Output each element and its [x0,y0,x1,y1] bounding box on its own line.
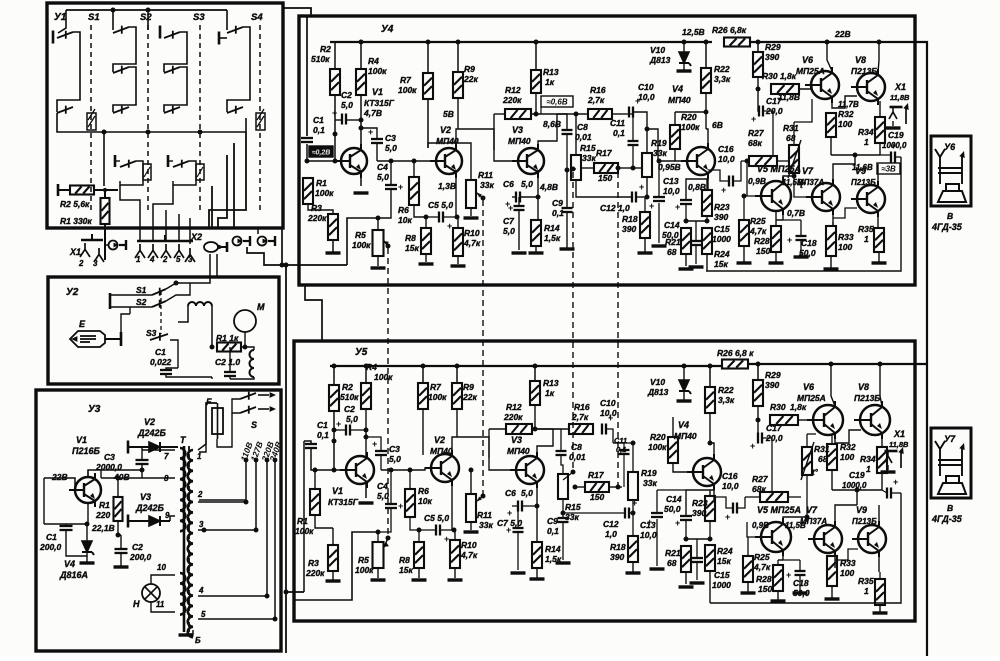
U4 V4 wires [706,129,708,146]
U5 R32 wires [831,434,833,444]
svg-text:R2: R2 [342,382,353,392]
connector X1 pin2 fork [80,243,90,257]
svg-text:R17: R17 [588,470,605,480]
svg-text:МП40: МП40 [507,446,530,456]
U4 V7 V9 wires [833,164,855,183]
U4 R15 wiper dot [571,167,576,172]
svg-text:R2: R2 [320,44,331,54]
U5 R28 wires [777,560,779,565]
U4 R32 wires [830,99,832,113]
U5 C7 wires [517,532,519,570]
U1 terminal bar S3 row1 [159,26,162,39]
U5 top rail wire [330,365,723,367]
U4 R12 wires [494,113,505,115]
wire U1 corner down [281,228,283,265]
svg-text:С3: С3 [385,133,396,143]
svg-text:С3: С3 [104,452,115,462]
resistor R20 U4 [670,125,680,149]
svg-text:С2: С2 [344,404,355,414]
svg-text:R35: R35 [858,224,874,234]
svg-text:V3: V3 [512,125,523,135]
svg-text:5: 5 [176,255,181,264]
svg-text:1000: 1000 [712,234,731,244]
U4 C5 wires [426,216,439,218]
U4 V2 emitter wire [455,170,457,217]
svg-text:100к: 100к [315,188,334,198]
svg-text:V5 МП25А: V5 МП25А [757,164,801,174]
U4 C6 wires [512,196,516,198]
U3 lamp H [142,584,160,602]
resistor R9 U4 [453,72,463,98]
resistor R2 U4 [330,69,340,95]
U5 R8 wires [418,530,420,542]
svg-text:4ГД-35: 4ГД-35 [931,514,963,524]
U1 S1 dashed link [90,25,92,210]
connector X1 bar [81,239,103,242]
resistor R16 U5 [569,424,593,434]
svg-text:С16: С16 [722,471,738,481]
U1 crossbus wire [57,113,246,132]
svg-text:V4: V4 [678,420,689,430]
diode V10 U5 zener [679,380,691,394]
U2 S2 contact [152,300,166,308]
svg-text:КТ315Г: КТ315Г [328,497,359,507]
U1 terminal bar row4 S2 [114,155,117,167]
U2 wire S3 to C1 [170,340,178,368]
U4 R19 wires [646,129,648,153]
svg-text:S2: S2 [136,297,147,307]
svg-text:10к: 10к [418,496,432,506]
svg-text:15к: 15к [714,259,728,269]
svg-text:510к: 510к [340,392,359,402]
svg-text:4,7к: 4,7к [753,562,771,572]
U4 C10 wires [633,112,647,129]
svg-text:У1: У1 [54,12,67,23]
svg-text:С11: С11 [610,118,625,128]
svg-text:0,7В: 0,7В [787,208,805,218]
resistor R4 U4 [356,69,366,95]
U3 selector dots [244,458,249,463]
resistor R18 U4 [640,212,650,238]
U4 return bus to R5 node [347,218,378,265]
svg-text:R1 330к: R1 330к [60,216,92,226]
capacitor C2 U5 [346,425,350,436]
svg-text:15к: 15к [405,243,419,253]
resistor R26 U4 [724,38,750,47]
svg-text:П213Б: П213Б [854,393,880,403]
svg-text:200,0: 200,0 [39,542,62,552]
svg-text:V3: V3 [140,492,151,502]
capacitor C1 U4 [301,138,313,142]
U3 C1 cap [60,526,73,530]
svg-text:Е: Е [79,319,86,329]
U1 hatched detent row4 S3 [196,164,204,180]
wire U5 input branch [286,591,304,593]
connector X2 pin5 fork [174,244,184,258]
resistor R1 U1 [101,198,110,224]
svg-text:V1: V1 [372,87,383,97]
capacitor C18 U5 [795,571,806,575]
svg-text:С14: С14 [666,494,682,504]
U1 row2 return wires [113,67,136,112]
svg-text:R16: R16 [574,402,590,412]
svg-text:R9: R9 [463,382,474,392]
U4 C16 wires [708,170,729,181]
resistor R17 U4 [594,163,618,173]
U5 R27 wires [745,496,760,498]
svg-text:R35: R35 [858,576,874,586]
svg-text:У7: У7 [944,434,956,444]
U5 R30 wires [798,419,813,421]
U3 transistor V1 [69,473,101,507]
svg-text:4,7к: 4,7к [460,550,478,560]
U1 S1 contact row3 [57,106,73,114]
svg-text:+: + [675,518,680,528]
resistor R30 U5 [770,415,798,425]
U3 primary tap 3 wire [198,529,256,531]
U4 input node wires [306,144,308,161]
svg-text:С15: С15 [714,570,730,580]
U4 V3 base wire [494,150,518,161]
svg-text:+: + [336,419,341,429]
capacitor C13 U5 [651,513,663,517]
svg-text:С14: С14 [664,220,680,230]
svg-text:22к: 22к [462,392,477,402]
U4 R24 wires [706,254,708,271]
U1 row1 return wires [57,32,80,112]
svg-text:≈3В: ≈3В [881,165,896,174]
U5 R13 wires [533,364,538,369]
U5 C18 wires [799,560,801,571]
svg-text:33к: 33к [480,180,494,190]
svg-text:V10: V10 [650,377,665,387]
svg-text:R27: R27 [748,128,765,138]
svg-text:+: + [639,182,644,192]
svg-text:С6: С6 [505,488,516,498]
capacitor C10 U5 [602,424,606,435]
U4 R10 wires [457,217,458,228]
svg-text:22,1В: 22,1В [91,523,115,533]
svg-text:10,0: 10,0 [640,530,657,540]
svg-text:5,0: 5,0 [385,143,397,153]
U4 V10 wires [682,40,687,45]
capacitor C14 U5 [680,516,692,520]
capacitor C16 U4 [729,176,733,187]
svg-text:R15: R15 [565,502,581,512]
U5 input node wires [304,441,311,444]
svg-text:5,0: 5,0 [341,100,353,110]
svg-text:R24: R24 [717,546,733,556]
svg-text:0,022: 0,022 [150,357,172,367]
svg-text:220к: 220к [307,213,327,223]
svg-text:5,0: 5,0 [521,179,533,189]
U5 input wire [303,441,305,592]
U4 C17 cap [759,106,763,117]
svg-text:1,3В: 1,3В [438,181,456,191]
svg-text:R30: R30 [770,402,786,412]
resistor R21 U4 [681,228,691,254]
svg-text:С10: С10 [600,398,616,408]
svg-text:Д816А: Д816А [59,570,88,580]
svg-text:510к: 510к [311,54,330,64]
svg-text:R34: R34 [860,454,876,464]
svg-text:V2: V2 [144,417,155,427]
U4 C12 wires [576,196,632,197]
svg-text:М: М [257,302,265,312]
U5 R5 wires [378,508,391,532]
capacitor C14 U4 [680,200,692,204]
svg-text:0,95В: 0,95В [658,162,681,172]
U4 R1 bottom wire [308,204,333,214]
svg-text:Д242Б: Д242Б [135,503,165,513]
svg-text:1,8к: 1,8к [790,402,807,412]
U1 row4 wires [120,161,143,185]
svg-text:С1: С1 [313,115,324,125]
svg-text:2,7к: 2,7к [587,95,605,105]
U4 C18 wires [800,220,802,236]
svg-text:С9: С9 [552,198,563,208]
svg-text:R5: R5 [358,555,369,565]
U1 S3 contact row2 [164,66,180,74]
svg-text:R6: R6 [418,486,429,496]
U1 top feed wires [66,9,227,11]
svg-text:S1: S1 [136,285,147,295]
svg-text:5,0: 5,0 [389,454,401,464]
resistor R23 U4 [702,190,712,216]
U5 R3 wires [332,528,334,545]
svg-text:5,0: 5,0 [377,172,389,182]
resistor R7 U5 [418,383,428,409]
svg-text:С12 1,0: С12 1,0 [600,203,630,213]
U5 R19 wires [632,443,634,472]
svg-text:R29: R29 [765,370,781,380]
svg-text:+: + [893,477,898,487]
transistor V1 U5 [340,452,374,488]
resistor R25 U5 [743,556,753,582]
resistor R2 U5 [329,385,339,411]
U5 C6 wires [512,505,518,507]
U4 R14 wires [535,246,537,252]
U3 winding primary right [188,450,193,637]
svg-text:S4: S4 [251,12,263,23]
transistor V5 U5 [755,518,791,556]
svg-text:R10: R10 [464,228,480,238]
capacitor C15 U5 [691,558,703,562]
U5 node wires [685,520,687,539]
U1 terminal bar top-left [52,31,55,44]
svg-text:0,1: 0,1 [552,208,564,218]
svg-text:22к: 22к [463,74,478,84]
svg-text:2: 2 [78,259,84,268]
resistor R8 U5 [414,542,424,568]
svg-text:1,5к: 1,5к [544,233,561,243]
U1 terminal bar row4 S3 [167,155,170,167]
transistor V5 U4 [755,177,791,215]
U4 input wire from top [306,17,308,136]
svg-text:4: 4 [198,586,204,595]
transistor V1 U4 [335,144,367,178]
svg-text:С16: С16 [718,144,734,154]
U1 S3 contact row3 [164,106,180,114]
svg-text:1: 1 [136,255,141,264]
U5 V5 wires [747,522,762,537]
U3 winding 7-8-9 left [180,448,185,531]
wire connector ellipse to U2 verticals [209,254,211,277]
resistor R28 U4 [771,226,781,252]
U5 C9 wires [562,513,564,518]
capacitor C8 U5 [556,451,567,455]
svg-text:У3: У3 [88,404,101,415]
resistor R10 U5 [450,540,460,568]
transistor V9 U4 [851,181,885,217]
svg-text:С12: С12 [603,519,619,529]
capacitor C6 U5 [518,501,522,512]
svg-text:С19: С19 [888,130,904,140]
svg-text:+: + [649,201,654,211]
svg-text:10,0: 10,0 [722,481,739,491]
resistor R5 U5 potentiometer [373,542,384,568]
U5 R9 wires [455,364,460,369]
svg-text:4ГД-35: 4ГД-35 [931,222,963,232]
svg-text:КТ315Г: КТ315Г [364,98,395,108]
U5 C13 wires [656,490,658,513]
svg-text:11,8В: 11,8В [889,440,909,449]
svg-text:100: 100 [838,242,852,252]
U3 tap B wire and ground [186,630,193,634]
svg-text:+: + [725,512,730,522]
svg-text:R11: R11 [478,170,493,180]
U5 C11 wires [613,443,624,450]
svg-text:6В: 6В [712,120,723,130]
svg-text:С8: С8 [571,442,582,452]
svg-text:F: F [206,397,212,407]
transistor V3 U4 [512,144,544,178]
wire connector D stub up [257,228,259,234]
U4 measure box 0,2V [309,146,333,157]
svg-text:С13: С13 [640,520,656,530]
resistor R22 U4 [701,68,711,93]
svg-text:15к: 15к [399,565,413,575]
svg-text:V4: V4 [672,84,683,94]
U5 C17 cap [758,433,762,444]
U5 rail right wire [748,363,927,365]
svg-text:У6: У6 [944,142,956,152]
resistor R14 U5 [532,542,542,568]
U4 R16 wires [586,113,588,115]
svg-text:220к: 220к [503,412,523,422]
U4 C17 wires [758,89,759,111]
U5 C10 wires [606,429,613,443]
U2 motor M circle [234,310,256,332]
svg-text:4,7В: 4,7В [363,108,382,118]
svg-text:100: 100 [840,568,854,578]
svg-text:У4: У4 [381,24,394,35]
svg-text:МП40: МП40 [508,136,531,146]
block U5 box [294,341,915,621]
U3 fuse F [212,408,223,434]
svg-text:22В: 22В [51,472,68,482]
svg-text:100к: 100к [368,66,387,76]
resistor R7 U4 [423,73,433,99]
U4 R25 wires [743,196,745,220]
U3 winding wires left [142,449,175,451]
resistor R6 U4 [409,177,419,205]
svg-text:R34: R34 [858,127,874,137]
svg-text:R7: R7 [430,382,442,392]
U4 R21 wires [685,254,687,266]
svg-text:0,1: 0,1 [313,125,325,135]
resistor R34 U5 [877,447,887,473]
resistor R24 U4 [702,228,712,254]
svg-text:150: 150 [756,246,770,256]
U3 primary tap 5 wire [198,618,275,620]
U1 S4 contact row3 [227,106,243,114]
U2 S3 contact [150,333,168,341]
resistor R2 U1 [70,186,94,195]
resistor R13 U4 [531,70,541,93]
svg-text:11,7В: 11,7В [838,100,859,109]
transistor V7 U5 [808,521,842,557]
svg-text:С9: С9 [547,516,558,526]
svg-text:R14: R14 [545,544,561,554]
resistor R11 U5 pot [466,494,476,522]
U4 R19-V4 wire [647,129,675,161]
resistor R14 U4 [531,220,541,246]
svg-text:V7: V7 [802,166,814,176]
U5 V4 wires [710,443,714,457]
svg-text:50,0: 50,0 [664,504,681,514]
svg-text:390: 390 [622,224,636,234]
gang link dashed R5 [387,248,389,538]
U2 erase head E [70,331,105,347]
transistor V6 U5 [807,401,843,439]
svg-text:V2: V2 [440,125,451,135]
svg-text:V6: V6 [802,55,814,65]
U1 S2 contact row2 [113,66,129,74]
svg-text:Н: Н [133,599,140,609]
svg-text:R6: R6 [398,205,409,215]
speaker U7 box [931,428,971,498]
svg-text:У5: У5 [355,347,368,358]
U5 C15 wires [696,539,698,558]
svg-text:V2: V2 [434,435,445,445]
U4 R4 wires [359,40,364,45]
svg-text:10,0: 10,0 [663,186,680,196]
svg-text:5В: 5В [443,109,454,119]
svg-text:33к: 33к [653,148,667,158]
svg-text:С2: С2 [132,542,143,552]
U5 bottom bus wire [710,493,901,603]
resistor R10 U4 [453,228,463,256]
U1 S2 contact row1 [113,26,129,34]
U4 node R15 wires [557,113,586,115]
U5 R22 wires [708,364,713,369]
svg-text:10,0: 10,0 [718,154,735,164]
U5 R25 wires [747,537,749,556]
svg-text:7: 7 [164,452,169,461]
svg-text:R12: R12 [505,85,521,95]
svg-text:1: 1 [864,137,869,147]
U3 ground bottom [179,633,194,636]
U3 C3 cap [136,460,149,464]
U4 R30 wires [771,88,775,90]
capacitor C5 U5 [436,525,440,536]
U5 C4 wires [390,470,392,504]
U2 wires top [166,277,210,289]
svg-text:R29: R29 [765,42,781,52]
wire connector C staircase to return bus [247,247,347,265]
capacitor C3 U5 [375,451,387,455]
